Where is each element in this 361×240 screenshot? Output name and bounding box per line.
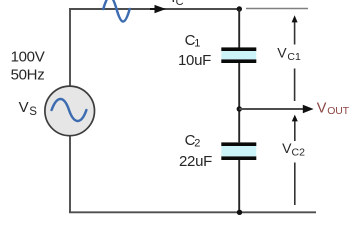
node VOUT junction [237,106,242,111]
svg-text:50Hz: 50Hz [11,66,45,83]
wire C2 to bottom [238,160,240,212]
value label 100V 50Hz [11,48,45,83]
svg-text:V: V [277,45,287,61]
label VC2 (white background breaks the arrow line) [282,140,305,163]
capacitor C2 [221,142,256,160]
svg-text:1: 1 [194,37,200,49]
current arrow IC on top wire [150,5,166,13]
svg-text:C: C [176,0,184,8]
label IC (cut off at top edge) [171,0,183,8]
svg-text:V: V [19,99,29,116]
wire C1 to C2 [238,63,240,142]
AC waveform symbol on top wire [103,0,129,22]
svg-text:C1: C1 [287,51,301,63]
svg-text:V: V [317,100,327,116]
label C2 [185,132,201,149]
wire VOUT tap [239,105,313,113]
wire left vertical (bottom section) [69,136,71,212]
voltage source VS [45,86,95,136]
node junction top [237,6,242,11]
svg-text:OUT: OUT [327,105,349,117]
wire top horizontal [69,8,239,10]
label VOUT [317,100,350,117]
svg-text:C2: C2 [292,147,306,159]
wire capacitor branch (top wire to C1) [238,9,240,48]
label C1 [185,32,201,49]
wire left vertical (top section) [69,8,71,86]
svg-text:S: S [29,106,37,118]
label VS [19,99,38,118]
value label 22uF [179,153,212,170]
svg-text:2: 2 [194,137,200,149]
capacitor C1 [221,47,256,63]
wire bottom horizontal [69,211,316,213]
voltage arrow VC2 [292,115,298,205]
measurement reference line (top right, gray) [246,8,308,10]
value label 10uF [178,52,211,69]
svg-text:100V: 100V [11,48,45,65]
label VC1 (white background breaks the arrow line) [277,45,301,69]
svg-text:10uF: 10uF [178,52,211,69]
svg-text:22uF: 22uF [179,153,212,170]
node junction bottom [237,210,242,215]
voltage arrow VC1 [292,15,298,101]
